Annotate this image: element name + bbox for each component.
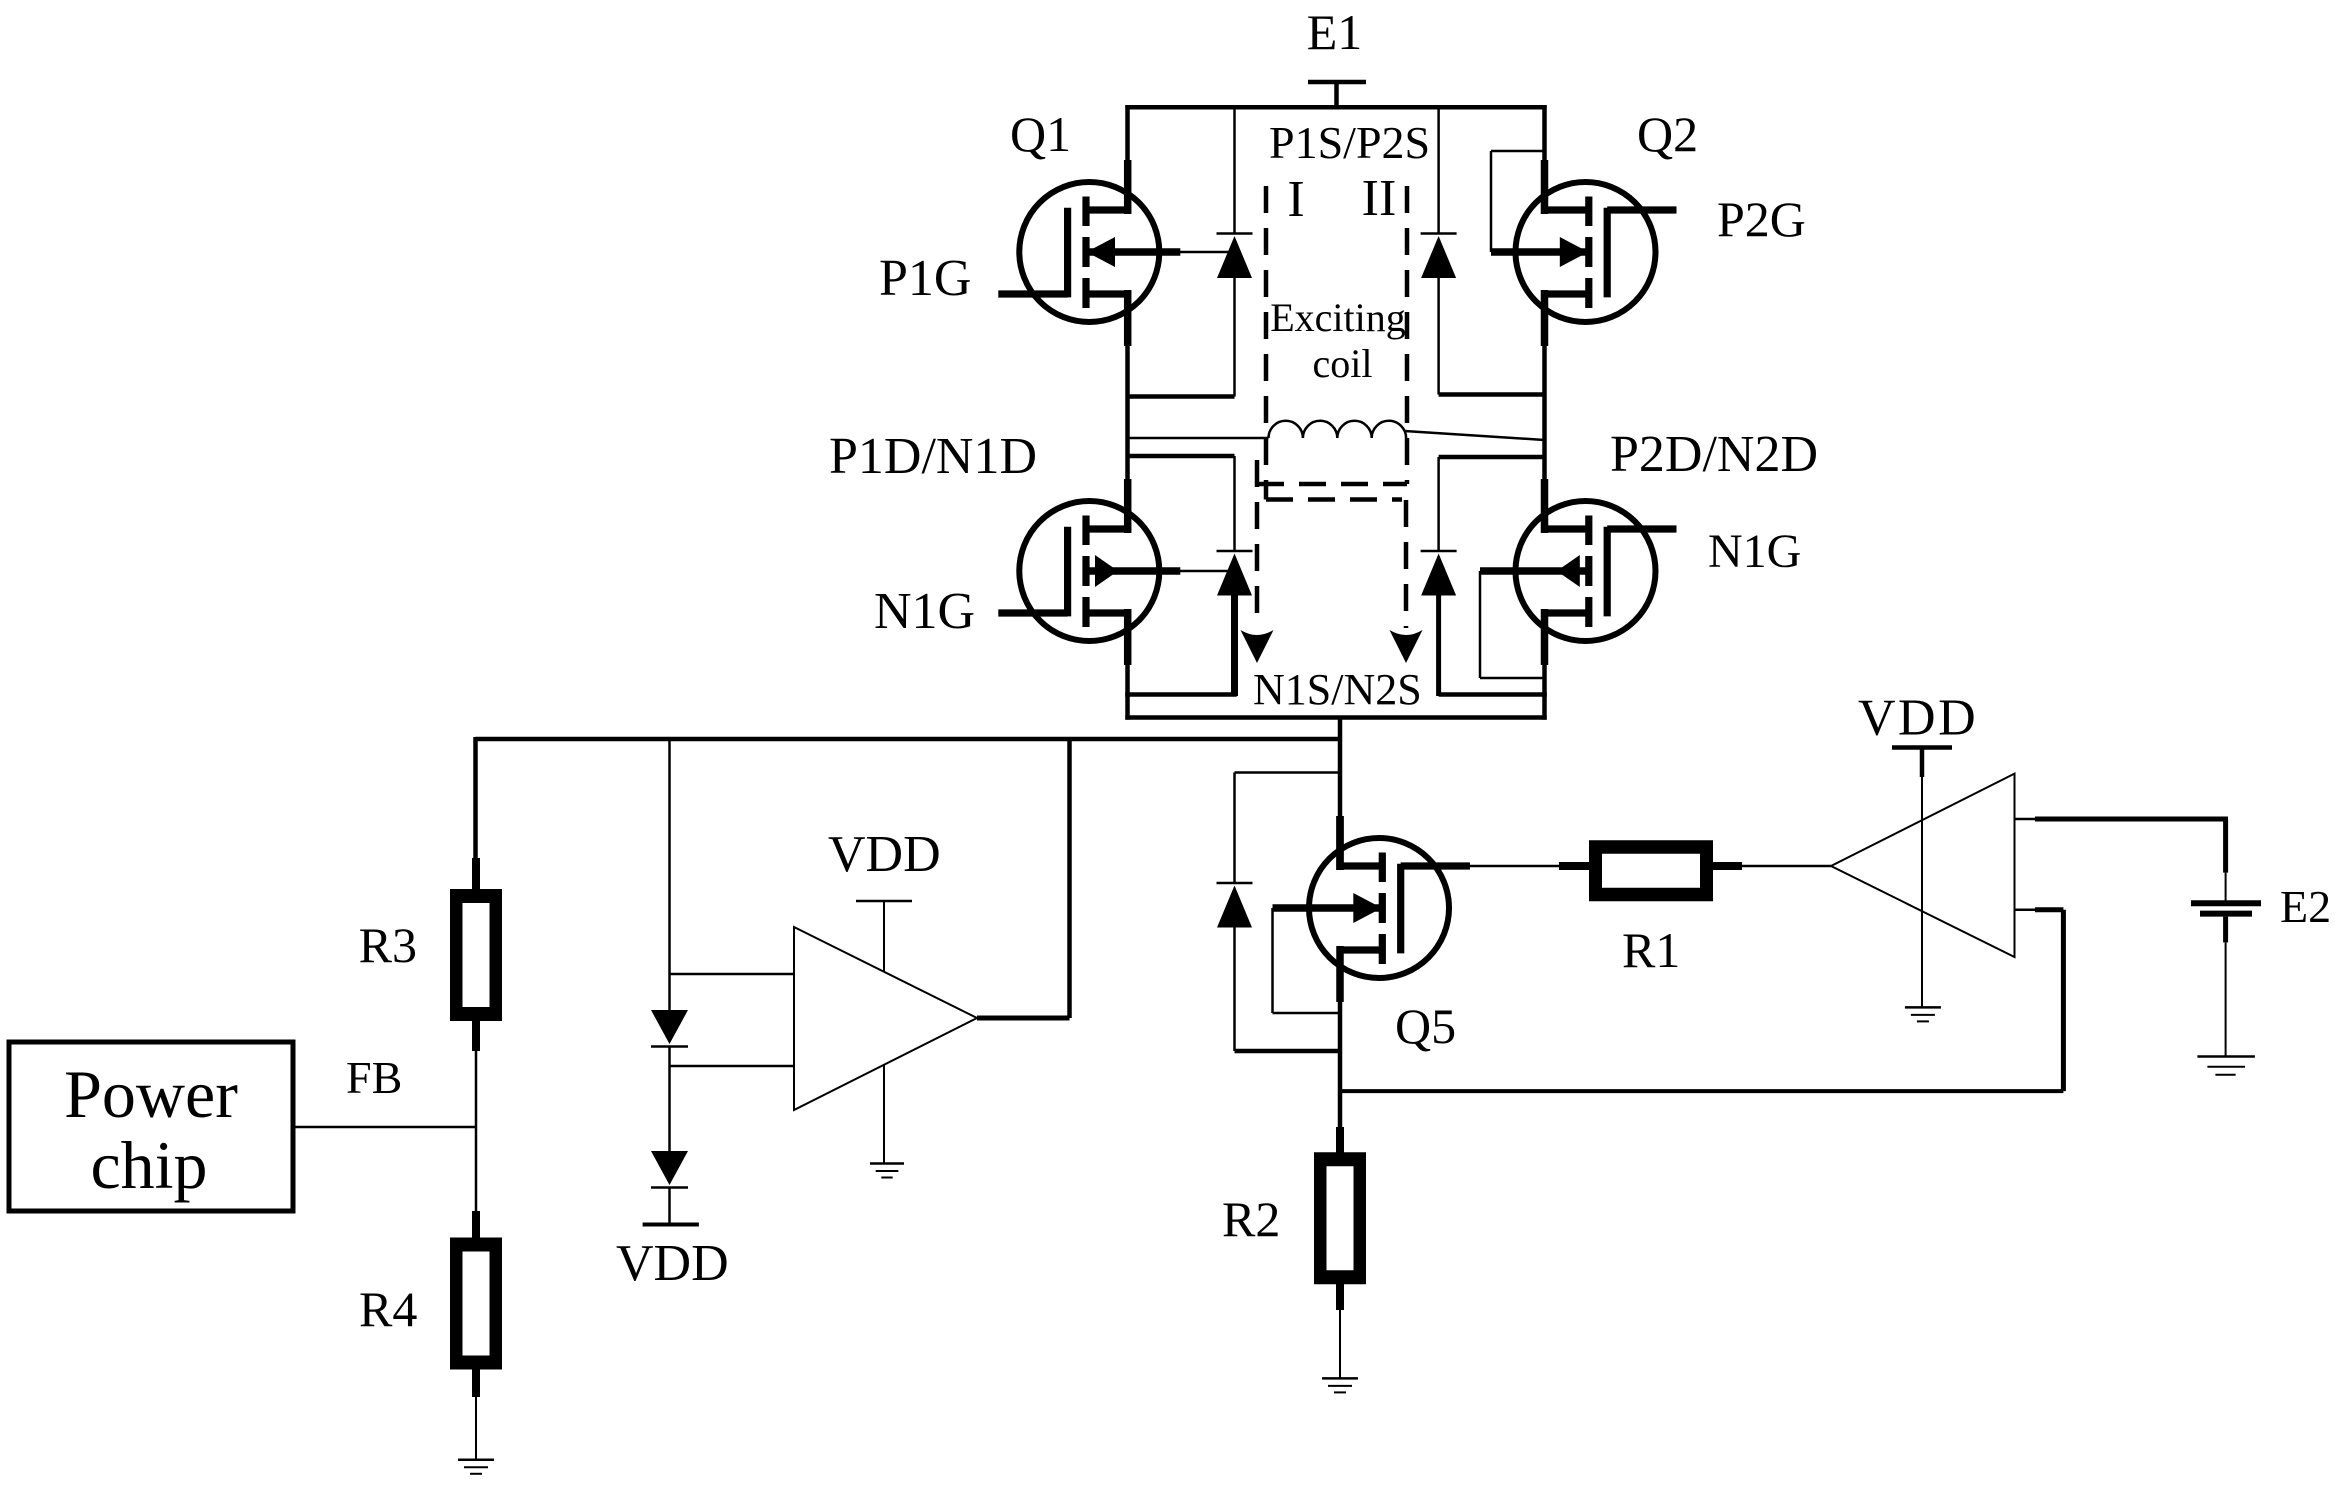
svg-text:R4: R4 (359, 1281, 417, 1337)
svg-text:Q2: Q2 (1637, 106, 1698, 162)
svg-text:R2: R2 (1222, 1191, 1280, 1247)
svg-text:II: II (1362, 170, 1397, 227)
svg-text:R1: R1 (1622, 922, 1680, 978)
svg-text:N1G: N1G (1708, 525, 1801, 578)
svg-text:I: I (1287, 171, 1304, 228)
svg-text:VDD: VDD (828, 826, 941, 883)
svg-text:chip: chip (90, 1127, 207, 1203)
svg-text:P1S/P2S: P1S/P2S (1269, 117, 1430, 168)
svg-text:P1D/N1D: P1D/N1D (829, 428, 1037, 485)
svg-text:R3: R3 (359, 917, 417, 973)
svg-text:coil: coil (1313, 341, 1373, 386)
svg-text:Q1: Q1 (1010, 106, 1071, 162)
svg-text:E1: E1 (1307, 4, 1363, 60)
svg-text:Q5: Q5 (1395, 998, 1456, 1054)
svg-text:FB: FB (346, 1052, 402, 1103)
svg-text:P1G: P1G (879, 250, 971, 307)
svg-text:E2: E2 (2280, 881, 2331, 932)
svg-text:VDD: VDD (616, 1235, 729, 1292)
svg-text:N1G: N1G (874, 583, 975, 640)
svg-text:Power: Power (64, 1056, 238, 1132)
svg-text:P2G: P2G (1717, 191, 1806, 247)
svg-text:P2D/N2D: P2D/N2D (1610, 426, 1818, 483)
svg-text:Exciting: Exciting (1270, 295, 1406, 340)
svg-text:VDD: VDD (1858, 690, 1978, 747)
svg-text:N1S/N2S: N1S/N2S (1253, 665, 1422, 714)
